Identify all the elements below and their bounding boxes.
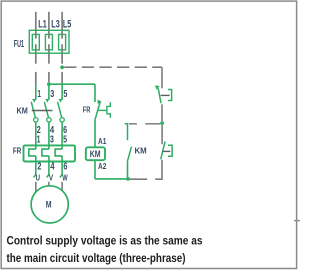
svg-text:FR: FR xyxy=(13,145,21,155)
svg-text:2: 2 xyxy=(37,161,41,172)
svg-text:U: U xyxy=(36,173,40,183)
svg-text:M: M xyxy=(46,199,52,209)
svg-text:L5: L5 xyxy=(63,19,71,31)
svg-text:the main circuit voltage (thre: the main circuit voltage (three-phrase) xyxy=(7,251,186,265)
svg-text:FR: FR xyxy=(83,105,91,115)
svg-text:3: 3 xyxy=(50,135,54,146)
svg-text:W: W xyxy=(62,173,67,183)
svg-text:KM: KM xyxy=(17,106,28,116)
svg-text:4: 4 xyxy=(50,161,55,172)
svg-text:3: 3 xyxy=(50,89,54,100)
svg-text:1: 1 xyxy=(37,135,41,146)
svg-text:FU1: FU1 xyxy=(14,39,24,50)
svg-text:Control supply voltage is as t: Control supply voltage is as the same as xyxy=(7,234,203,248)
svg-text:L1: L1 xyxy=(38,19,46,31)
svg-text:KM: KM xyxy=(135,146,147,156)
svg-text:A1: A1 xyxy=(98,136,107,146)
svg-text:A2: A2 xyxy=(98,161,107,171)
svg-text:5: 5 xyxy=(63,89,67,100)
svg-text:L3: L3 xyxy=(51,19,59,31)
svg-text:5: 5 xyxy=(63,135,67,146)
svg-text:KM: KM xyxy=(90,149,101,159)
svg-text:1: 1 xyxy=(37,89,41,100)
svg-text:V: V xyxy=(49,173,54,183)
svg-text:6: 6 xyxy=(63,161,67,172)
